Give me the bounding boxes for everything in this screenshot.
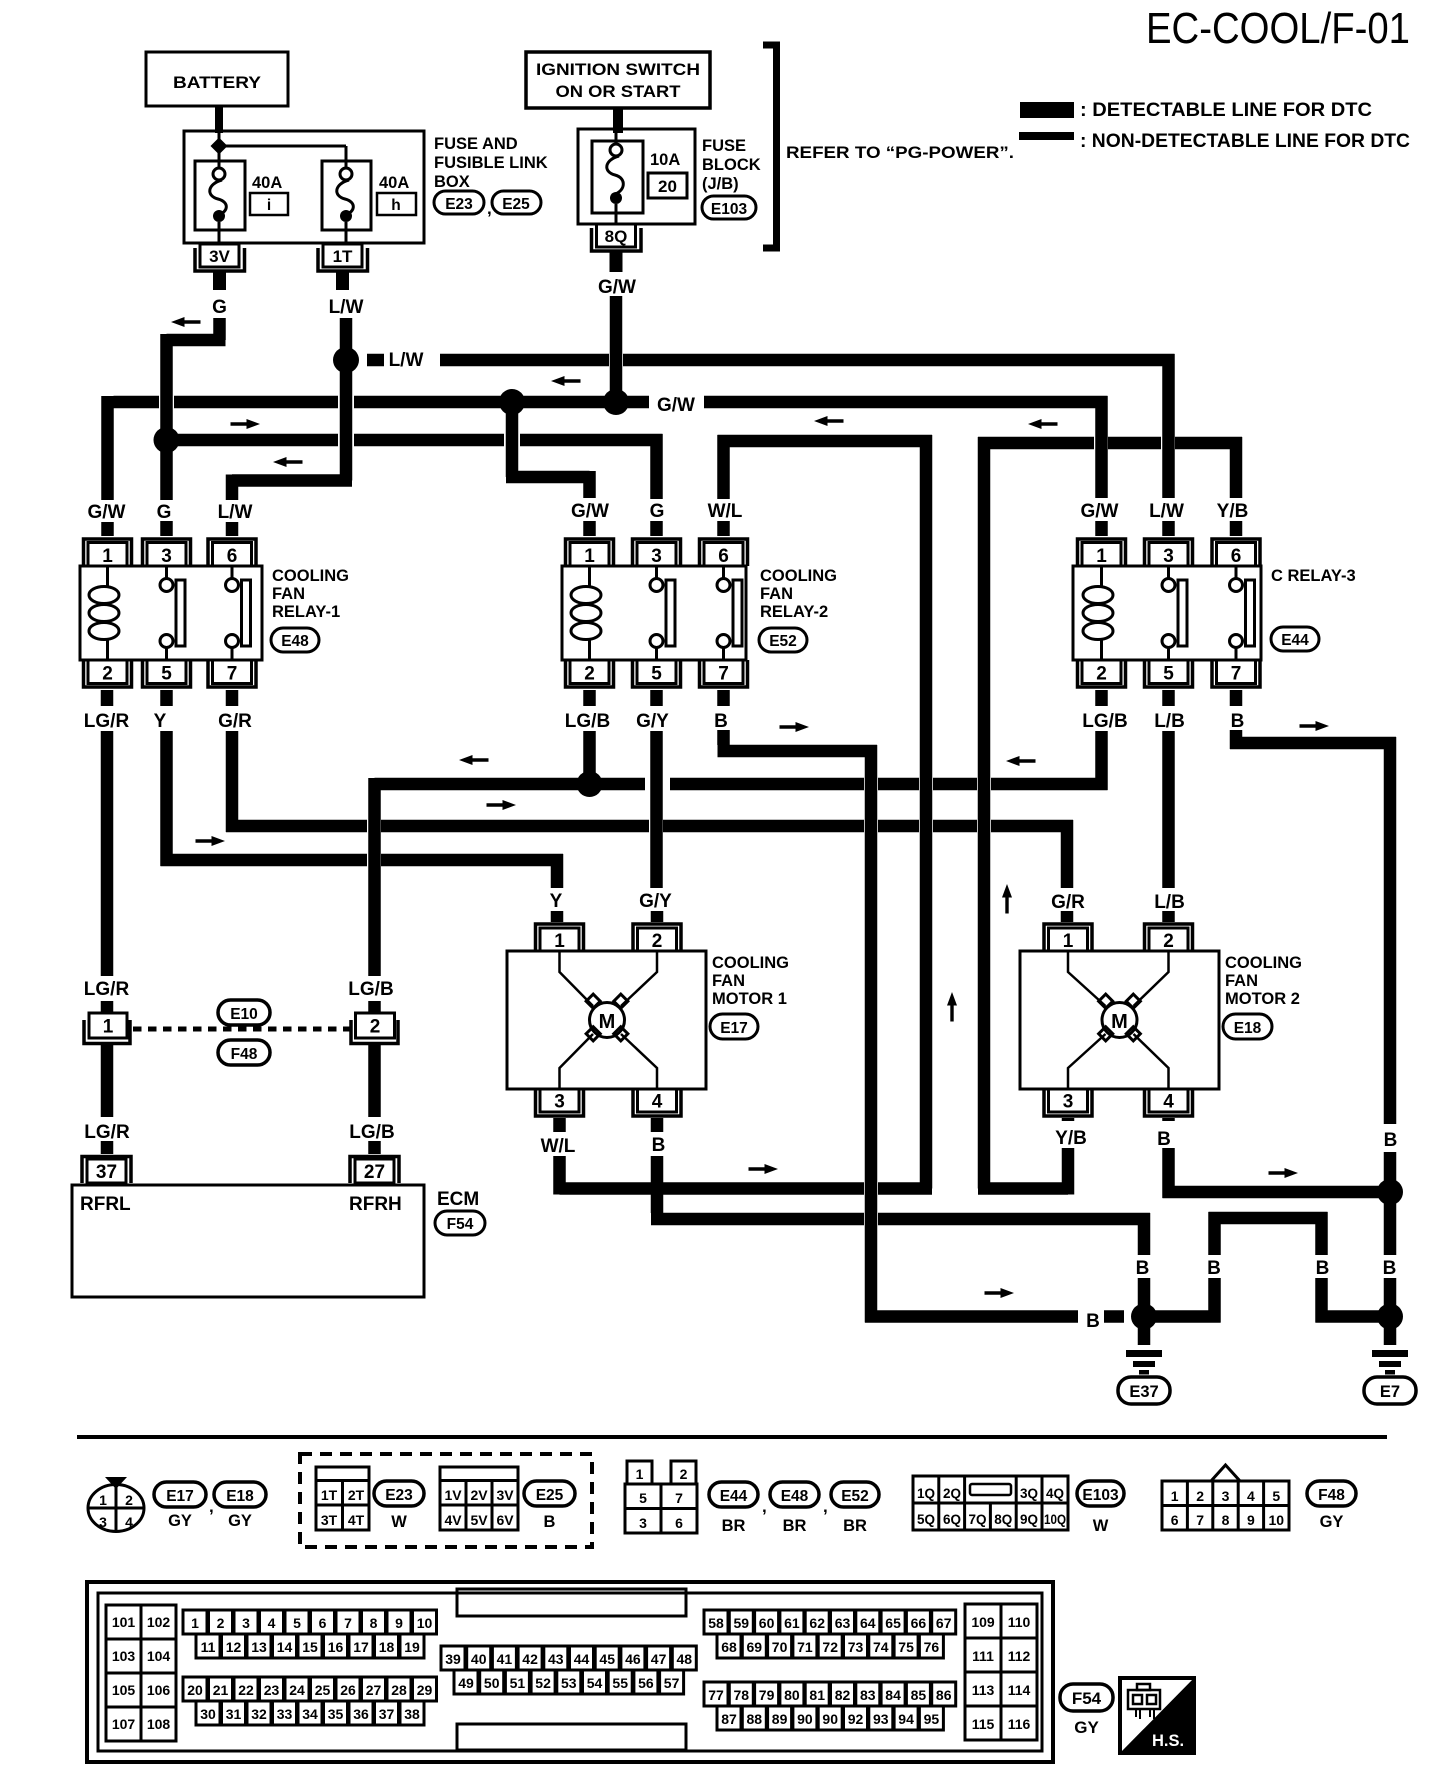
fusible link h 40A xyxy=(322,161,371,230)
svg-text:2V: 2V xyxy=(470,1487,488,1503)
svg-text:FAN: FAN xyxy=(760,585,793,603)
connector E48 oval id xyxy=(770,1482,819,1507)
ECM pin 27 xyxy=(350,1157,399,1184)
svg-text:10: 10 xyxy=(417,1615,433,1631)
relay E52 COOLING FAN RELAY-2 xyxy=(562,539,837,687)
wire B motor-2 pin4 to far right xyxy=(1163,1118,1391,1198)
ECM pin row 30-38 xyxy=(196,1701,424,1725)
svg-text:1: 1 xyxy=(1171,1488,1179,1504)
ECM pin row 20-29 xyxy=(183,1677,437,1701)
svg-text:F54: F54 xyxy=(1072,1689,1102,1708)
wire Y/B C-relay-3 pin6 to motor-2 pin3 xyxy=(978,437,1242,1195)
svg-text:E44: E44 xyxy=(720,1488,748,1505)
svg-text:B: B xyxy=(1157,1129,1171,1150)
svg-text:BR: BR xyxy=(843,1517,867,1535)
svg-text:E52: E52 xyxy=(769,633,797,650)
svg-text:104: 104 xyxy=(147,1648,171,1664)
svg-text:G/R: G/R xyxy=(1051,892,1085,913)
svg-text:E25: E25 xyxy=(502,196,530,213)
svg-text:G: G xyxy=(650,501,665,522)
svg-text:53: 53 xyxy=(561,1675,577,1691)
svg-text:90: 90 xyxy=(797,1711,813,1727)
arrow right G/R row xyxy=(487,800,517,810)
svg-text:28: 28 xyxy=(391,1682,407,1698)
svg-text:E48: E48 xyxy=(281,633,309,650)
svg-text:31: 31 xyxy=(226,1706,242,1722)
svg-text:COOLING: COOLING xyxy=(712,954,789,972)
svg-text:G/W: G/W xyxy=(598,277,636,298)
ignition switch box xyxy=(526,52,710,108)
svg-text:102: 102 xyxy=(147,1614,171,1630)
svg-text:33: 33 xyxy=(277,1706,293,1722)
svg-text:65: 65 xyxy=(885,1615,901,1631)
svg-text:(J/B): (J/B) xyxy=(702,175,739,193)
svg-text:35: 35 xyxy=(328,1706,344,1722)
svg-text:49: 49 xyxy=(458,1675,474,1691)
svg-text:88: 88 xyxy=(747,1711,763,1727)
ECM block right grid 109-116 xyxy=(965,1604,1037,1740)
svg-text:Y/B: Y/B xyxy=(1055,1128,1087,1149)
svg-text:BR: BR xyxy=(783,1517,807,1535)
wire L/B C-relay-3 pin5 to motor-2 pin2 xyxy=(1162,690,1175,922)
svg-text:81: 81 xyxy=(809,1687,825,1703)
svg-text:93: 93 xyxy=(873,1711,889,1727)
svg-text:LG/R: LG/R xyxy=(84,711,130,732)
svg-text:50: 50 xyxy=(484,1675,500,1691)
svg-text:10Q: 10Q xyxy=(1044,1512,1066,1527)
arrow left G jog xyxy=(171,317,201,327)
node L/W junction dot xyxy=(333,347,359,373)
svg-text:COOLING: COOLING xyxy=(272,567,349,585)
svg-text:105: 105 xyxy=(112,1682,136,1698)
wire battery to fuse box xyxy=(215,106,223,133)
ground E7 xyxy=(1384,1317,1397,1346)
svg-text:M: M xyxy=(1111,1011,1128,1033)
svg-text:59: 59 xyxy=(734,1615,750,1631)
ECM box F54 xyxy=(72,1185,424,1297)
arrow right Y row xyxy=(196,836,226,846)
svg-text:LG/R: LG/R xyxy=(84,1122,130,1143)
svg-text:61: 61 xyxy=(784,1615,800,1631)
wire G row to relay-2 pin3 xyxy=(167,434,663,536)
svg-text:95: 95 xyxy=(924,1711,940,1727)
svg-text:2: 2 xyxy=(102,664,113,685)
svg-text:41: 41 xyxy=(497,1651,513,1667)
svg-text:3V: 3V xyxy=(496,1487,514,1503)
svg-text:1: 1 xyxy=(1096,546,1107,567)
svg-text:COOLING: COOLING xyxy=(760,567,837,585)
svg-text:22: 22 xyxy=(238,1682,254,1698)
svg-text:3: 3 xyxy=(651,546,662,567)
svg-text:G/Y: G/Y xyxy=(639,891,672,912)
wire G/Y relay-2 pin5 to motor-1 pin2 xyxy=(650,690,663,922)
motor E18 COOLING FAN MOTOR 2 xyxy=(1020,924,1302,1116)
legend non-detectable line xyxy=(1019,132,1074,140)
svg-text:46: 46 xyxy=(625,1651,641,1667)
separator rule xyxy=(77,1435,1387,1439)
svg-text:39: 39 xyxy=(445,1651,461,1667)
svg-text:18: 18 xyxy=(379,1639,395,1655)
svg-text:Y: Y xyxy=(154,711,167,732)
svg-text:47: 47 xyxy=(651,1651,667,1667)
svg-text:2: 2 xyxy=(125,1492,133,1508)
wire B motor-1 pin4 to E37 dot xyxy=(651,1118,1150,1308)
svg-text:110: 110 xyxy=(1008,1614,1031,1630)
svg-text:E17: E17 xyxy=(166,1488,194,1505)
arrow up W/L vertical xyxy=(947,992,957,1022)
fuse and fusible link box E23/E25 xyxy=(184,131,424,243)
svg-text:2: 2 xyxy=(584,664,595,685)
svg-text:9: 9 xyxy=(395,1615,403,1631)
connector relay pin layout icon xyxy=(625,1461,697,1533)
svg-text:74: 74 xyxy=(873,1639,889,1655)
svg-text:F54: F54 xyxy=(447,1216,474,1233)
svg-text:62: 62 xyxy=(809,1615,825,1631)
ECM block empty rect top xyxy=(457,1589,686,1616)
connector E23 oval id xyxy=(374,1481,424,1506)
svg-text:G/W: G/W xyxy=(571,501,609,522)
ECM pin row 1-10 xyxy=(183,1610,437,1634)
svg-text:26: 26 xyxy=(340,1682,356,1698)
svg-text:4: 4 xyxy=(268,1615,276,1631)
svg-text:M: M xyxy=(599,1011,616,1033)
svg-text:3: 3 xyxy=(99,1514,107,1530)
connector E18 oval id xyxy=(214,1482,266,1507)
svg-text:13: 13 xyxy=(251,1639,267,1655)
svg-text:1: 1 xyxy=(584,546,595,567)
svg-text:5Q: 5Q xyxy=(917,1512,935,1527)
ECM block left grid 101-108 xyxy=(106,1605,176,1741)
svg-text:1V: 1V xyxy=(444,1487,462,1503)
connector F54 oval xyxy=(435,1211,485,1235)
svg-text:30: 30 xyxy=(200,1706,216,1722)
svg-text:EC-COOL/F-01: EC-COOL/F-01 xyxy=(1146,4,1410,53)
svg-text:56: 56 xyxy=(638,1675,654,1691)
wire stub motor-2 pin3 xyxy=(1062,1118,1075,1121)
svg-text:4: 4 xyxy=(652,1092,663,1113)
connector E17 oval id xyxy=(154,1482,206,1507)
connector E23 grid xyxy=(316,1467,369,1530)
connector 1 E10/F48 inline xyxy=(89,1013,127,1038)
svg-text:78: 78 xyxy=(734,1687,750,1703)
svg-text:L/B: L/B xyxy=(1154,711,1185,732)
svg-text:45: 45 xyxy=(599,1651,615,1667)
ECM pin row 68-76 xyxy=(717,1634,943,1658)
svg-text:B: B xyxy=(1207,1258,1221,1279)
svg-text:60: 60 xyxy=(759,1615,775,1631)
svg-text:27: 27 xyxy=(364,1162,385,1183)
connector E10 oval xyxy=(218,1000,270,1025)
svg-text:3: 3 xyxy=(161,546,172,567)
svg-text:3: 3 xyxy=(1222,1488,1230,1504)
svg-text:10: 10 xyxy=(1269,1512,1285,1528)
svg-text:5: 5 xyxy=(651,664,662,685)
svg-text:19: 19 xyxy=(404,1639,420,1655)
connector E23 oval xyxy=(434,191,484,214)
svg-text:E23: E23 xyxy=(385,1487,413,1504)
svg-text:1: 1 xyxy=(99,1492,107,1508)
svg-text:4: 4 xyxy=(1163,1092,1174,1113)
svg-text:64: 64 xyxy=(860,1615,876,1631)
ECM pin row 49-57 xyxy=(454,1670,684,1694)
svg-text:L/W: L/W xyxy=(329,297,364,318)
svg-text:B: B xyxy=(1383,1258,1397,1279)
svg-text:7Q: 7Q xyxy=(968,1512,986,1527)
connector E25 oval xyxy=(492,191,541,214)
svg-text:37: 37 xyxy=(379,1706,395,1722)
svg-text:B: B xyxy=(1316,1258,1330,1279)
svg-text:FUSE AND: FUSE AND xyxy=(434,135,518,153)
svg-text:5: 5 xyxy=(1163,664,1174,685)
svg-text:BOX: BOX xyxy=(434,173,470,191)
svg-text:8Q: 8Q xyxy=(605,227,628,246)
connector E103 oval xyxy=(702,196,756,219)
svg-text:,: , xyxy=(823,1497,828,1516)
svg-text:116: 116 xyxy=(1008,1716,1031,1732)
svg-text:E44: E44 xyxy=(1281,632,1309,649)
svg-text:LG/B: LG/B xyxy=(1082,711,1127,732)
svg-text:107: 107 xyxy=(112,1716,136,1732)
svg-text:MOTOR 2: MOTOR 2 xyxy=(1225,990,1300,1008)
svg-text:7: 7 xyxy=(227,664,238,685)
svg-text:B: B xyxy=(1384,1130,1398,1151)
svg-text:h: h xyxy=(391,197,400,214)
svg-text:E17: E17 xyxy=(720,1020,748,1037)
svg-text:G/Y: G/Y xyxy=(636,711,669,732)
ECM pin row 77-86 xyxy=(704,1682,956,1706)
svg-text:E10: E10 xyxy=(230,1006,258,1023)
svg-text:20: 20 xyxy=(187,1682,203,1698)
svg-text:FAN: FAN xyxy=(712,972,745,990)
svg-text:3V: 3V xyxy=(209,247,230,266)
svg-text:85: 85 xyxy=(911,1687,927,1703)
svg-text:9: 9 xyxy=(1247,1512,1255,1528)
svg-text:B: B xyxy=(1086,1311,1100,1332)
arrow right G row xyxy=(231,419,261,429)
svg-text:GY: GY xyxy=(1074,1718,1099,1737)
svg-text:1T: 1T xyxy=(333,247,353,266)
svg-text:48: 48 xyxy=(677,1651,693,1667)
connector 2 E10/F48 inline xyxy=(356,1013,395,1038)
svg-text:34: 34 xyxy=(302,1706,318,1722)
wire G/W row xyxy=(108,396,1108,536)
svg-text:16: 16 xyxy=(328,1639,344,1655)
svg-text:7: 7 xyxy=(675,1490,683,1506)
junction battery branch xyxy=(211,138,228,155)
svg-text:LG/B: LG/B xyxy=(348,979,393,1000)
svg-text:3Q: 3Q xyxy=(1020,1486,1038,1501)
arrow left G/W row xyxy=(551,376,581,386)
svg-text:7: 7 xyxy=(718,664,729,685)
svg-text:F48: F48 xyxy=(1318,1487,1345,1504)
svg-text:1: 1 xyxy=(636,1466,644,1482)
node B dot motor-2 join xyxy=(1377,1179,1403,1205)
svg-text:3: 3 xyxy=(242,1615,250,1631)
svg-text:B: B xyxy=(1136,1258,1150,1279)
svg-text:GY: GY xyxy=(1320,1513,1344,1531)
arrow left LG/B row right xyxy=(1006,756,1036,766)
svg-text:G: G xyxy=(157,502,172,523)
svg-text:3: 3 xyxy=(1063,1092,1074,1113)
arrow left LG/B row xyxy=(459,755,489,765)
arrow right B motor-2 row xyxy=(1269,1168,1299,1178)
svg-text:6: 6 xyxy=(227,546,238,567)
ECM pin row 58-67 xyxy=(704,1610,956,1634)
svg-text:12: 12 xyxy=(226,1639,242,1655)
svg-text:1T: 1T xyxy=(321,1487,338,1503)
svg-text:23: 23 xyxy=(264,1682,280,1698)
svg-text:LG/B: LG/B xyxy=(565,711,610,732)
svg-text:4: 4 xyxy=(125,1514,133,1530)
svg-text:1: 1 xyxy=(191,1615,199,1631)
svg-text:6: 6 xyxy=(675,1515,683,1531)
svg-text:E103: E103 xyxy=(1082,1487,1119,1504)
svg-text:21: 21 xyxy=(213,1682,229,1698)
wire G/R relay-1 pin7 to motor-2 pin1 xyxy=(226,690,1073,922)
node B dot E37 xyxy=(1131,1304,1157,1330)
ECM block empty rect bottom xyxy=(457,1724,686,1750)
arrow right B C-relay-3 xyxy=(1300,721,1330,731)
node G junction dot xyxy=(154,427,180,453)
svg-text:2: 2 xyxy=(217,1615,225,1631)
node G/W dot at relay-2 branch xyxy=(499,389,525,415)
wire stub motor-1 pin3 xyxy=(553,1118,566,1132)
svg-text:32: 32 xyxy=(251,1706,267,1722)
wire G/W jog to relay-2 pin1 xyxy=(506,409,590,536)
svg-text:68: 68 xyxy=(721,1639,737,1655)
svg-text:69: 69 xyxy=(747,1639,763,1655)
H.S. logo xyxy=(1120,1678,1194,1753)
connector E52 oval id xyxy=(831,1482,879,1507)
wire LG/B relay-2 pin2 to C-relay-3 pin2 and ECM pin27 xyxy=(375,690,1108,1154)
svg-text:89: 89 xyxy=(772,1711,788,1727)
connector round E17/E18 icon xyxy=(88,1477,144,1532)
svg-text:E48: E48 xyxy=(781,1488,809,1505)
svg-text:G/W: G/W xyxy=(88,502,126,523)
svg-text:40A: 40A xyxy=(252,174,282,192)
svg-text:W: W xyxy=(391,1513,407,1531)
svg-text:E18: E18 xyxy=(1234,1020,1262,1037)
arrow right B relay-2 xyxy=(780,722,810,732)
svg-text:ON OR START: ON OR START xyxy=(556,82,682,101)
node LG/B junction dot xyxy=(577,771,603,797)
svg-text:5: 5 xyxy=(293,1615,301,1631)
svg-text:17: 17 xyxy=(353,1639,369,1655)
svg-text:54: 54 xyxy=(587,1675,603,1691)
svg-text:FAN: FAN xyxy=(1225,972,1258,990)
svg-text:W/L: W/L xyxy=(541,1136,576,1157)
dashed group box xyxy=(300,1454,592,1547)
svg-text:1: 1 xyxy=(103,1017,114,1038)
svg-text:55: 55 xyxy=(612,1675,628,1691)
svg-text:4Q: 4Q xyxy=(1046,1486,1064,1501)
svg-text:7: 7 xyxy=(1196,1512,1204,1528)
svg-text:H.S.: H.S. xyxy=(1152,1732,1184,1750)
svg-text:1Q: 1Q xyxy=(917,1486,935,1501)
ECM connector block outer xyxy=(87,1582,1053,1762)
svg-text:6: 6 xyxy=(1171,1512,1179,1528)
legend detectable line xyxy=(1020,102,1074,118)
svg-text:G/W: G/W xyxy=(1081,501,1119,522)
svg-text:Y/B: Y/B xyxy=(1217,501,1249,522)
ground E37 xyxy=(1138,1317,1151,1346)
svg-text:G/W: G/W xyxy=(657,395,695,416)
fuse 10A #20 xyxy=(592,141,643,213)
wire battery branch inside fuse box xyxy=(219,133,346,167)
svg-text:5: 5 xyxy=(1272,1488,1280,1504)
svg-text:79: 79 xyxy=(759,1687,775,1703)
svg-text:BATTERY: BATTERY xyxy=(173,73,262,92)
wire B zigzag between grounds xyxy=(1144,1212,1390,1323)
svg-text:,: , xyxy=(209,1497,214,1516)
svg-text:14: 14 xyxy=(277,1639,293,1655)
svg-text:E18: E18 xyxy=(226,1488,254,1505)
svg-text:40: 40 xyxy=(471,1651,487,1667)
svg-text:51: 51 xyxy=(510,1675,526,1691)
svg-text:40A: 40A xyxy=(379,174,409,192)
wire L/W drop to relay-1 pin6 xyxy=(232,360,352,536)
svg-text:115: 115 xyxy=(972,1716,995,1732)
ECM pin row 39-48 xyxy=(441,1646,696,1670)
svg-text:G: G xyxy=(212,297,227,318)
svg-text:4V: 4V xyxy=(444,1512,462,1528)
relay E48 COOLING FAN RELAY-1 xyxy=(80,539,349,687)
svg-text:92: 92 xyxy=(848,1711,864,1727)
svg-text:BR: BR xyxy=(722,1517,746,1535)
svg-text:44: 44 xyxy=(574,1651,590,1667)
svg-text:72: 72 xyxy=(822,1639,838,1655)
svg-text:3: 3 xyxy=(1163,546,1174,567)
wire B relay-2 pin7 to E37 ground run xyxy=(718,690,1125,1323)
svg-text:IGNITION SWITCH: IGNITION SWITCH xyxy=(536,60,700,79)
svg-text:27: 27 xyxy=(366,1682,382,1698)
wire G/W from 8Q down xyxy=(610,251,623,272)
svg-text:E25: E25 xyxy=(536,1487,564,1504)
svg-text:15: 15 xyxy=(302,1639,318,1655)
svg-text:E52: E52 xyxy=(841,1488,869,1505)
svg-text:7: 7 xyxy=(1231,664,1242,685)
connector F48 oval id xyxy=(1307,1481,1356,1506)
svg-text:24: 24 xyxy=(289,1682,305,1698)
connector F54 oval id xyxy=(1060,1684,1113,1711)
svg-text:2Q: 2Q xyxy=(943,1486,961,1501)
svg-text:80: 80 xyxy=(784,1687,800,1703)
svg-text:36: 36 xyxy=(353,1706,369,1722)
svg-text:8Q: 8Q xyxy=(994,1512,1012,1527)
battery B1 xyxy=(146,52,288,106)
fuse block J/B E103 xyxy=(578,129,695,224)
svg-text:5: 5 xyxy=(639,1490,647,1506)
connector E25 grid xyxy=(440,1467,518,1530)
ECM pin row 87-95 xyxy=(717,1706,943,1730)
svg-text:8: 8 xyxy=(370,1615,378,1631)
svg-text:58: 58 xyxy=(708,1615,724,1631)
svg-text:7: 7 xyxy=(344,1615,352,1631)
ECM pin row 11-19 xyxy=(196,1634,424,1658)
wire L/W row to C-relay-3 pin3 xyxy=(367,354,1175,536)
svg-text:67: 67 xyxy=(936,1615,952,1631)
svg-text:2: 2 xyxy=(652,931,663,952)
node B dot E7 xyxy=(1377,1304,1403,1330)
svg-text:84: 84 xyxy=(885,1687,901,1703)
svg-text:3: 3 xyxy=(554,1092,565,1113)
svg-text:90: 90 xyxy=(822,1711,838,1727)
svg-text:103: 103 xyxy=(112,1648,136,1664)
svg-text:B: B xyxy=(652,1135,666,1156)
svg-text:6V: 6V xyxy=(496,1512,514,1528)
arrow left W/L row xyxy=(814,416,844,426)
svg-text:73: 73 xyxy=(848,1639,864,1655)
